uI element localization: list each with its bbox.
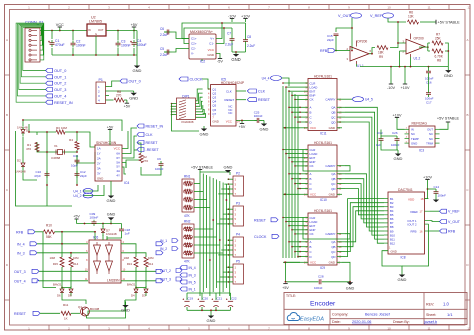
svg-text:G: G (95, 32, 97, 36)
wire transistor collector (62, 296, 136, 316)
svg-text:18K: 18K (378, 51, 385, 55)
svg-text:+10V: +10V (423, 175, 432, 179)
svg-text:6A: 6A (116, 152, 120, 156)
svg-text:GND: GND (329, 126, 335, 130)
svg-text:VCC: VCC (310, 193, 316, 197)
net port V_OUT (338, 13, 362, 18)
svg-text:IOUT 2: IOUT 2 (408, 223, 417, 227)
svg-text:QA: QA (331, 240, 335, 244)
net label OUT_3 mid (160, 277, 182, 282)
ground GND at REF02 (394, 143, 403, 161)
svg-text:10pF: 10pF (71, 164, 78, 168)
ground GND at C25 (260, 120, 269, 131)
ground GND at MAX660 (231, 54, 240, 62)
net label IN_1 mid (160, 239, 178, 244)
svg-text:100nF: 100nF (90, 216, 99, 220)
svg-text:VCC: VCC (310, 126, 316, 130)
capacitor C21 (212, 297, 223, 307)
capacitor C16 100nF (425, 67, 434, 85)
capacitor C11 10pF (71, 154, 80, 168)
svg-text:C2-: C2- (191, 47, 196, 51)
svg-text:100nF: 100nF (391, 143, 400, 147)
svg-text:5: 5 (235, 248, 237, 252)
ground GND under DAC (382, 251, 407, 283)
net label OUT_2 mid (160, 269, 182, 274)
svg-text:4: 4 (148, 6, 150, 10)
header P2 (228, 172, 244, 197)
net label OUT_1 (46, 75, 67, 80)
svg-text:3A: 3A (97, 167, 101, 171)
svg-text:7: 7 (235, 222, 237, 226)
svg-text:HD74LS161: HD74LS161 (314, 141, 332, 145)
EasyEDA logo (287, 312, 324, 322)
net label IN_3 mid (180, 273, 196, 278)
svg-text:25K: 25K (435, 37, 442, 41)
svg-text:Q7: Q7 (212, 112, 216, 116)
svg-text:P2: P2 (236, 172, 240, 176)
resistor network RN2 (182, 220, 194, 264)
DIP switch DIP1 (177, 94, 196, 124)
svg-text:4: 4 (98, 98, 100, 102)
svg-text:9: 9 (348, 6, 350, 10)
resistor R4 1K (69, 138, 79, 150)
svg-text:470: 470 (26, 147, 31, 151)
net port U4_2 (73, 185, 104, 198)
wire right bus counters to DAC (345, 107, 384, 256)
svg-text:10M: 10M (50, 256, 56, 260)
svg-text:OUT_1: OUT_1 (54, 75, 66, 79)
ground GND under IC5 (200, 126, 209, 136)
svg-text:2.2uF: 2.2uF (225, 43, 233, 47)
svg-text:IN_3: IN_3 (189, 274, 196, 278)
net label RESET_IN at IC4 (137, 124, 163, 129)
svg-text:X1: X1 (54, 144, 58, 148)
wire left bus to counters (282, 82, 300, 263)
net label RFB input (320, 49, 350, 54)
svg-text:2: 2 (98, 89, 100, 93)
svg-text:RFB: RFB (320, 49, 328, 53)
svg-text:C8: C8 (247, 35, 251, 39)
svg-text:BAV21: BAV21 (53, 283, 62, 287)
svg-text:D: D (466, 263, 469, 267)
wire MAX660 bottom (202, 51, 246, 61)
ground GND main rail (133, 62, 142, 73)
wire IOUT2 to GND (402, 224, 429, 266)
comparator IC6 LM339N (85, 231, 126, 283)
net label OUT_0 (46, 69, 67, 74)
svg-text:CLOCK: CLOCK (254, 235, 267, 239)
svg-text:+5V: +5V (73, 214, 80, 218)
svg-text:3.0868: 3.0868 (51, 156, 61, 160)
svg-text:OUT_3: OUT_3 (54, 88, 66, 92)
net port U4_5 carry (345, 97, 373, 102)
svg-text:VCC: VCC (226, 120, 232, 124)
svg-text:GND: GND (398, 277, 407, 282)
svg-text:C28: C28 (318, 274, 324, 278)
resistor R1 470 (26, 143, 39, 152)
svg-text:R9: R9 (379, 55, 383, 59)
diode D7 1N4148 (101, 224, 117, 241)
svg-text:IC6: IC6 (93, 236, 98, 240)
capacitor C09 100nF (90, 212, 99, 226)
svg-text:C9: C9 (157, 157, 161, 161)
svg-text:5Y: 5Y (116, 165, 120, 169)
svg-text:GND: GND (107, 213, 116, 217)
net label OUT_3 bottom (14, 269, 88, 274)
net label CLK at IC4 (137, 133, 153, 138)
wire carry counter2 (303, 150, 350, 172)
svg-text:NC: NC (429, 137, 433, 141)
svg-text:GND: GND (444, 73, 453, 78)
svg-text:-10V: -10V (228, 14, 236, 18)
svg-text:HD74LS161: HD74LS161 (314, 74, 332, 78)
svg-text:IC3: IC3 (419, 149, 424, 153)
svg-text:DAC7541: DAC7541 (398, 188, 413, 192)
net label OUT_0 at P1 (120, 79, 141, 84)
svg-text:4: 4 (208, 92, 210, 95)
svg-text:8: 8 (86, 259, 88, 262)
svg-text:2.2uF: 2.2uF (247, 44, 255, 48)
svg-text:D5: D5 (68, 294, 72, 298)
svg-text:1: 1 (235, 207, 237, 211)
svg-text:5: 5 (235, 217, 237, 221)
power flag -10V at MAX660 (228, 14, 236, 22)
svg-text:13K: 13K (408, 15, 415, 19)
svg-text:1K: 1K (64, 317, 68, 321)
svg-text:R15: R15 (53, 262, 59, 266)
wire DIP1 to IC5 pins (171, 89, 206, 131)
svg-text:QB: QB (331, 111, 335, 115)
svg-text:IN: IN (88, 28, 91, 32)
resistor R13 10M (124, 256, 138, 267)
svg-text:GND: GND (329, 193, 335, 197)
resistor R15 10M (50, 256, 64, 267)
svg-text:Encoder: Encoder (310, 301, 336, 308)
svg-text:CONN_01: CONN_01 (25, 19, 44, 24)
wire opamp1 out to R9 (369, 42, 399, 55)
svg-text:B: B (466, 113, 468, 117)
svg-text:OUT: OUT (427, 128, 433, 132)
wire headers to bus (217, 179, 229, 282)
svg-text:10M: 10M (124, 256, 130, 260)
svg-text:47K: 47K (184, 214, 191, 218)
capacitor C12 22pF (75, 170, 88, 178)
svg-text:+10V: +10V (401, 86, 410, 90)
capacitor C9 100nF (155, 157, 164, 171)
net flag +5V STABLE at REF02 (437, 117, 460, 130)
resistor R14 10M (69, 256, 79, 267)
svg-text:D3: D3 (142, 294, 146, 298)
svg-text:C: C (310, 182, 312, 186)
voltage reference IC3 REF02AG (405, 122, 440, 153)
svg-text:VCC: VCC (56, 23, 64, 27)
net label RESET mid (254, 218, 278, 223)
svg-text:IC11: IC11 (320, 132, 327, 136)
svg-text:RESET: RESET (254, 219, 267, 223)
svg-text:GND: GND (329, 261, 335, 265)
svg-text:V-: V- (191, 52, 194, 56)
svg-text:1.0: 1.0 (443, 302, 449, 307)
svg-text:GND: GND (133, 68, 142, 73)
svg-text:3: 3 (235, 243, 237, 247)
svg-text:MAX660CPA+: MAX660CPA+ (190, 30, 213, 34)
svg-text:jozsef.b: jozsef.b (423, 320, 437, 324)
svg-text:Drawn By:: Drawn By: (393, 320, 410, 324)
svg-text:100nF: 100nF (155, 167, 164, 171)
svg-text:C7: C7 (227, 32, 231, 36)
wire caps row (187, 293, 231, 312)
svg-text:1: 1 (235, 265, 237, 269)
svg-text:C1-: C1- (209, 42, 214, 46)
capacitor C18 1uF (107, 224, 130, 241)
net label RESET_IN (46, 100, 73, 105)
svg-text:A: A (310, 172, 312, 176)
net label RESET at IC5 (236, 98, 271, 103)
svg-text:8: 8 (308, 6, 310, 10)
svg-text:LM7805: LM7805 (89, 20, 102, 24)
counter IC11 74LS161 (299, 74, 345, 135)
svg-text:C26: C26 (392, 131, 398, 135)
svg-text:B12: B12 (390, 241, 395, 245)
capacitor C13 1uF (376, 130, 398, 151)
svg-text:11: 11 (427, 6, 430, 10)
header P3 (228, 202, 244, 227)
svg-text:V_OUT: V_OUT (448, 220, 461, 224)
ground GND comparator (87, 302, 131, 319)
wire P1 pin1 to OUT_0 (109, 81, 120, 87)
diode D1 1N4148 (17, 126, 30, 137)
svg-text:V_REF: V_REF (370, 14, 383, 18)
svg-text:270: 270 (116, 93, 122, 97)
svg-text:Sheet:: Sheet: (426, 313, 436, 317)
svg-text:-RESET: -RESET (146, 148, 160, 152)
crystal X1 3.0868 (51, 144, 65, 160)
svg-text:RESET: RESET (146, 141, 159, 145)
svg-text:GND: GND (97, 177, 103, 181)
svg-text:+5V: +5V (107, 125, 114, 129)
svg-text:A: A (310, 240, 312, 244)
svg-text:3: 3 (235, 212, 237, 216)
ground GND opamp right (444, 67, 453, 78)
net label IN_5 mid (180, 280, 196, 285)
svg-text:+5V STABLE: +5V STABLE (438, 21, 461, 25)
svg-text:QD: QD (331, 255, 335, 259)
svg-text:3: 3 (235, 270, 237, 274)
net label CLK at IC5 (236, 89, 266, 94)
svg-text:2.2uF: 2.2uF (160, 33, 168, 37)
svg-text:OUT_4: OUT_4 (14, 280, 26, 284)
resistor R10 56K (44, 224, 96, 244)
svg-text:10: 10 (387, 326, 391, 330)
svg-text:2A: 2A (97, 157, 101, 161)
resistor R6 13K (408, 11, 419, 25)
svg-text:B: B (6, 113, 8, 117)
svg-text:100nF: 100nF (121, 44, 131, 48)
svg-text:SN74HC04N: SN74HC04N (96, 141, 117, 145)
svg-text:GND: GND (207, 53, 215, 57)
ground GND at IC4 (107, 181, 116, 203)
svg-text:GND: GND (129, 96, 138, 101)
svg-text:GND: GND (260, 126, 269, 131)
svg-text:CK: CK (310, 232, 314, 236)
svg-text:11: 11 (427, 326, 430, 330)
svg-text:+5V STABLE: +5V STABLE (437, 117, 460, 121)
svg-text:12: 12 (467, 326, 471, 330)
diode D6 BAV21 (53, 283, 64, 298)
svg-text:470uF: 470uF (55, 43, 65, 47)
svg-text:RESET: RESET (258, 98, 271, 102)
header P5 (228, 260, 244, 285)
title block (284, 293, 467, 325)
svg-text:LM339N: LM339N (107, 279, 120, 283)
wire IC4 right side (122, 128, 161, 175)
net label OUT right flags (156, 269, 163, 283)
svg-text:V_REF: V_REF (448, 210, 460, 214)
svg-text:C: C (310, 250, 312, 254)
svg-text:7: 7 (235, 280, 237, 284)
svg-text:RN2: RN2 (184, 220, 191, 224)
capacitor C2 100nF (71, 40, 86, 48)
net label V_REF at DAC (430, 209, 460, 214)
svg-text:1: 1 (235, 177, 237, 181)
svg-text:NC: NC (429, 132, 433, 136)
svg-text:C5: C5 (160, 47, 164, 51)
svg-text:R14: R14 (73, 262, 79, 266)
svg-text:7: 7 (208, 105, 210, 108)
svg-text:+5V: +5V (131, 23, 138, 27)
net label RFB bottom (16, 230, 43, 235)
capacitor C7 2.2uF (225, 28, 235, 52)
svg-text:OUT_3: OUT_3 (160, 278, 171, 282)
svg-text:D: D (310, 255, 312, 259)
svg-text:R11: R11 (63, 303, 69, 307)
wire cap bottoms to GND (52, 31, 137, 56)
power flag +5V under counter3 (282, 284, 289, 291)
resistor R9 18K (377, 46, 388, 59)
svg-text:3: 3 (98, 94, 100, 98)
IC U4 SN74HC04N (95, 141, 129, 185)
svg-text:VCC: VCC (114, 147, 121, 151)
svg-text:100nF: 100nF (314, 286, 323, 290)
IC U5 HD74HC4024P (208, 77, 245, 126)
svg-text:17: 17 (420, 210, 423, 214)
header P4 (228, 233, 244, 258)
svg-text:10M: 10M (73, 256, 79, 260)
resistor R7 25K (432, 33, 443, 45)
net label RESET bottom (14, 311, 60, 316)
svg-text:U1.2: U1.2 (414, 57, 421, 61)
svg-text:OUT_2: OUT_2 (54, 82, 66, 86)
svg-text:C14: C14 (434, 185, 440, 189)
transistor Q1 BC338 (78, 305, 100, 316)
power flag +10V at REF02 (393, 113, 405, 129)
svg-text:RESET_IN: RESET_IN (146, 125, 164, 129)
svg-text:D2: D2 (17, 159, 21, 163)
svg-text:16: 16 (420, 229, 423, 233)
svg-text:6: 6 (208, 101, 210, 104)
ground GND mid (224, 165, 233, 173)
svg-text:C6: C6 (160, 27, 164, 31)
svg-text:U4_4: U4_4 (262, 77, 270, 81)
svg-text:270: 270 (143, 159, 148, 163)
svg-text:VCC: VCC (310, 261, 316, 265)
resistor R11 1K (61, 303, 80, 321)
svg-text:1: 1 (98, 85, 100, 89)
net label RFB at DAC (430, 229, 456, 234)
svg-text:QD: QD (331, 187, 335, 191)
svg-text:5: 5 (235, 187, 237, 191)
svg-text:-5V: -5V (217, 60, 223, 64)
svg-text:2Y: 2Y (97, 162, 101, 166)
diode D2 1N4148 (15, 159, 26, 174)
svg-text:QB: QB (331, 177, 335, 181)
svg-text:B: B (310, 111, 312, 115)
ground GND under counter3 (346, 282, 355, 290)
svg-text:OUT_3: OUT_3 (14, 270, 26, 274)
svg-text:D: D (310, 187, 312, 191)
svg-text:1N4148: 1N4148 (15, 170, 26, 174)
svg-text:A: A (6, 38, 8, 42)
svg-text:GND: GND (411, 141, 417, 145)
capacitor C28 100nF (286, 274, 351, 289)
net label RESET at IC4 (137, 141, 158, 146)
net label IN_2 mid (160, 247, 178, 252)
svg-text:GND: GND (200, 131, 209, 136)
resistor R8 270 (109, 90, 127, 102)
svg-text:C16: C16 (426, 81, 432, 85)
svg-text:IN_1: IN_1 (189, 288, 196, 292)
net label CLOCK mid (254, 234, 279, 239)
svg-text:100nF: 100nF (438, 194, 447, 198)
svg-text:TEMP: TEMP (411, 137, 419, 141)
capacitor C26 100nF (391, 131, 400, 147)
capacitor C8 2.2uF (243, 23, 255, 52)
resistor R12 10M (144, 256, 154, 267)
svg-text:VCC: VCC (208, 48, 215, 52)
svg-text:IN_3: IN_3 (17, 252, 25, 256)
svg-text:U4_5: U4_5 (365, 98, 373, 102)
svg-text:C: C (310, 115, 312, 119)
svg-text:GND: GND (207, 318, 216, 323)
capacitor C4 100uF (130, 39, 147, 47)
wire opamp2 nets (357, 43, 450, 68)
wire V_REF to R6 (388, 18, 436, 43)
svg-text:NC: NC (228, 111, 232, 115)
svg-text:RESET: RESET (14, 312, 27, 316)
power flag -10V opamps (387, 66, 395, 90)
svg-text:OUT: OUT (98, 28, 104, 32)
svg-text:Date:: Date: (332, 320, 341, 324)
wire carry counter3 (303, 218, 350, 240)
net flag +5V STABLE mid (191, 166, 230, 173)
svg-text:100nF: 100nF (76, 44, 86, 48)
svg-text:2.2uF: 2.2uF (160, 53, 168, 57)
svg-text:Q1: Q1 (78, 305, 82, 309)
svg-text:IN_1: IN_1 (160, 239, 167, 243)
svg-text:+5V: +5V (282, 286, 289, 290)
svg-text:QA: QA (331, 106, 335, 110)
capacitor C25 100nF (254, 111, 264, 123)
svg-text:V_OUT: V_OUT (338, 14, 351, 18)
wire comparator mesh (43, 232, 156, 289)
power flag +10V opamps (401, 66, 410, 90)
capacitor C17 100nF (425, 76, 434, 105)
svg-text:1N4148: 1N4148 (106, 232, 117, 236)
svg-text:IN: IN (411, 128, 414, 132)
svg-text:12: 12 (467, 6, 471, 10)
svg-text:CK: CK (310, 98, 314, 102)
svg-text:EasyEDA: EasyEDA (300, 317, 324, 323)
